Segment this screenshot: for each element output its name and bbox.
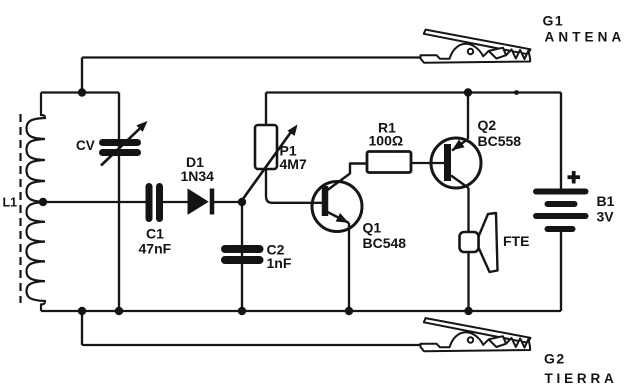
wire Q2 emitter diagonal (452, 139, 468, 151)
wire Q1 emitter vertical (348, 223, 350, 311)
diode D1 (188, 189, 212, 215)
alligator clip G1 (antenna) (421, 30, 531, 63)
wire ground drop vertical (81, 311, 83, 345)
svg-text:L1: L1 (3, 196, 18, 210)
wire top-left vertical drop (81, 58, 83, 93)
svg-text:BC548: BC548 (363, 235, 407, 251)
node rail speck (514, 90, 519, 95)
wire Q2 collector to speaker vertical (467, 188, 469, 311)
svg-text:1nF: 1nF (267, 255, 292, 271)
svg-text:47nF: 47nF (139, 241, 172, 257)
svg-text:FTE: FTE (503, 233, 529, 249)
variable capacitor CV (101, 121, 148, 166)
node ground drop (78, 307, 86, 315)
node speaker bottom (464, 307, 472, 315)
node C2 bottom (238, 307, 246, 315)
svg-text:C1: C1 (146, 226, 164, 242)
node Q1 emitter bottom (345, 307, 353, 315)
node A detector output (238, 198, 246, 206)
svg-text:4M7: 4M7 (280, 156, 307, 172)
node coil tap (39, 198, 47, 206)
capacitor C2 (225, 249, 260, 260)
wire bottom rail horizontal (41, 310, 561, 312)
inductor L1 (27, 93, 46, 312)
resistor R1 (367, 152, 411, 173)
wire Q1 emitter diagonal (328, 212, 350, 223)
wire P1 top lead to rail (265, 93, 267, 126)
svg-text:Q2: Q2 (478, 117, 497, 133)
wire coil tap to C1 (43, 201, 146, 203)
wire C1 to D1 (163, 201, 188, 203)
wire D1 to node A (213, 201, 243, 203)
svg-text:1N34: 1N34 (181, 168, 215, 184)
ferrite core dashed line (19, 114, 21, 303)
wire P1 bottom lead to Q1 base (266, 169, 322, 203)
svg-text:TIERRA: TIERRA (545, 371, 618, 386)
svg-text:G1: G1 (543, 13, 565, 29)
potentiometer P1 (240, 125, 298, 204)
node top-left junction (78, 88, 86, 96)
battery plus sign (568, 171, 581, 184)
wire CV branch vertical (118, 93, 120, 312)
node Q2 emitter rail (464, 88, 472, 96)
svg-text:G2: G2 (544, 351, 566, 367)
svg-text:CV: CV (76, 138, 95, 153)
svg-text:B1: B1 (597, 193, 615, 209)
svg-text:ANTENA: ANTENA (545, 30, 625, 45)
wire tank top horizontal (41, 91, 119, 93)
wire battery bottom lead (560, 232, 562, 312)
wire top antenna horizontal (82, 56, 420, 58)
wire Q1 collector to R1 (328, 164, 368, 191)
wire Q2 collector diagonal (451, 176, 469, 189)
transistor Q2 (431, 138, 481, 188)
wire positive rail horizontal (266, 91, 561, 93)
svg-text:BC558: BC558 (478, 133, 522, 149)
speaker FTE (460, 213, 498, 272)
wire battery top lead (560, 93, 562, 190)
svg-text:3V: 3V (597, 209, 615, 225)
wire ground horizontal to G2 clip (82, 344, 420, 346)
wire R1 to Q2 base (411, 162, 444, 164)
svg-text:Q1: Q1 (363, 220, 382, 236)
transistor Q1 (312, 182, 362, 232)
alligator clip G2 (ground) (421, 318, 531, 351)
capacitor C1 (149, 187, 160, 219)
svg-text:100Ω: 100Ω (369, 133, 404, 149)
battery B1 (536, 192, 586, 230)
wire C2 branch vertical (241, 202, 243, 311)
node CV bottom (115, 307, 123, 315)
wire Q2 emitter vertical to rail (467, 93, 469, 140)
